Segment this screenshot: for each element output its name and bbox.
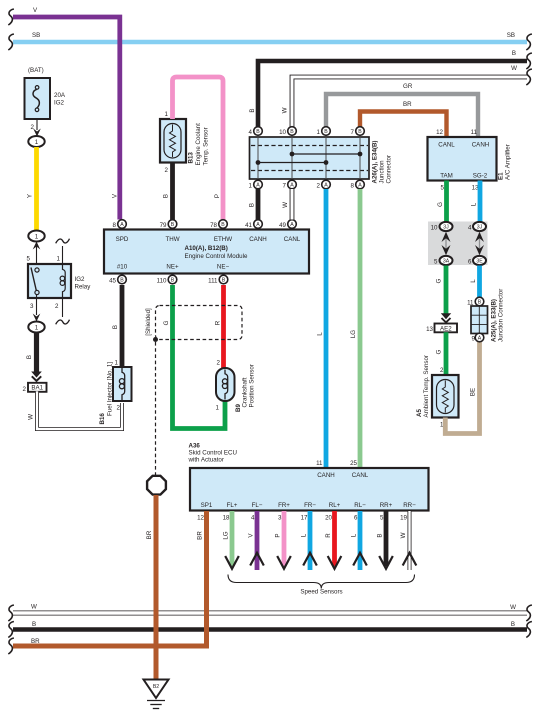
svg-text:SPD: SPD: [116, 236, 129, 243]
wire L (blue) junction to ABS CANH: [317, 189, 327, 468]
svg-text:Temp. Sensor: Temp. Sensor: [203, 127, 210, 165]
wire R (red) NE- to crankshaft sensor: [215, 285, 224, 368]
svg-text:2: 2: [217, 360, 221, 367]
connector pair arrows right column: [475, 232, 484, 255]
sensor A5 ambient temp sensor: [416, 355, 459, 428]
svg-text:1: 1: [165, 111, 169, 118]
svg-text:RR−: RR−: [403, 502, 416, 509]
junction connector A26(A) E34(B) body: [250, 137, 393, 184]
svg-text:49: 49: [279, 222, 286, 229]
svg-text:A/C Amplifier: A/C Amplifier: [505, 144, 512, 180]
wire W junction to ECM CANL (white hollow): [282, 189, 292, 220]
svg-text:G: G: [436, 278, 443, 283]
svg-text:A5: A5: [416, 409, 423, 417]
wire L (blue) SG-2 to 3J: [471, 181, 481, 223]
svg-text:CANH: CANH: [472, 142, 490, 149]
svg-text:Crankshaft: Crankshaft: [242, 377, 249, 407]
svg-text:4: 4: [468, 225, 472, 232]
svg-text:3A: 3A: [443, 259, 450, 265]
svg-text:A: A: [256, 183, 260, 189]
svg-text:2: 2: [23, 386, 27, 393]
svg-text:RR+: RR+: [380, 502, 393, 509]
wire BR shield drain to ground: [146, 495, 156, 680]
wire B (black) B13 pin2 to THW: [163, 163, 173, 220]
ground B2: [144, 680, 169, 709]
svg-text:B: B: [222, 278, 226, 284]
ABS ECU A36 skid control ECU: [188, 443, 429, 511]
svg-text:1: 1: [216, 405, 220, 412]
svg-text:AE2: AE2: [440, 326, 452, 333]
svg-text:Fuel Injector [No. 1]: Fuel Injector [No. 1]: [107, 362, 114, 416]
wire B junction to ECM CANH: [249, 189, 259, 220]
junction connector A25(A) E33(B) body: [471, 289, 505, 342]
break symbols bottom edge: [8, 605, 14, 621]
svg-text:Y: Y: [27, 194, 34, 198]
wire B (black) to BA1: [26, 333, 37, 374]
svg-text:110: 110: [157, 278, 167, 285]
svg-text:10: 10: [431, 225, 438, 232]
ECM pin 45(B) #10: [109, 275, 126, 284]
svg-text:Engine Coolant: Engine Coolant: [195, 123, 202, 166]
connector pair arrows left column: [442, 232, 451, 255]
speed sensors brace: [228, 575, 415, 596]
svg-text:ETHW: ETHW: [214, 236, 232, 243]
svg-text:A25(A), E33(B): A25(A), E33(B): [491, 299, 498, 342]
svg-text:1: 1: [35, 139, 39, 146]
svg-text:CANL: CANL: [438, 142, 455, 149]
svg-text:FR−: FR−: [304, 502, 316, 509]
svg-text:11: 11: [471, 129, 478, 136]
svg-text:12: 12: [197, 515, 204, 522]
svg-text:A: A: [478, 336, 482, 342]
svg-text:Junction Connector: Junction Connector: [498, 289, 505, 342]
wire into relay pin 5: [36, 246, 38, 266]
wire BR SP1 to ground bus: [197, 511, 207, 648]
svg-text:20A: 20A: [54, 92, 66, 99]
gray connector block: [428, 222, 488, 266]
svg-text:4: 4: [249, 129, 253, 136]
svg-text:3: 3: [30, 303, 34, 310]
svg-text:B: B: [358, 129, 362, 135]
svg-text:12: 12: [436, 129, 443, 136]
connector 3A (5): [434, 256, 452, 266]
ECM A10(A) B12(B) Engine Control Module: [104, 230, 309, 274]
svg-text:W: W: [400, 532, 407, 538]
svg-text:B: B: [112, 325, 119, 329]
wire W CAN trunk top right (white hollow): [282, 65, 528, 127]
svg-text:A: A: [358, 183, 362, 189]
svg-text:11: 11: [316, 460, 323, 467]
wire GR to A/C amplifier CANH: [326, 83, 478, 137]
svg-text:Junction: Junction: [379, 160, 386, 184]
svg-text:111: 111: [208, 278, 218, 285]
wire BR SP1 vertical over buses: [204, 600, 209, 648]
ECM pin 41(A) CANH: [245, 220, 262, 229]
ECM pin 110(B) NE+: [157, 275, 177, 284]
svg-text:GR: GR: [403, 83, 413, 90]
svg-text:6: 6: [354, 515, 358, 522]
svg-text:45: 45: [109, 278, 116, 285]
svg-text:Ambient Temp. Sensor: Ambient Temp. Sensor: [423, 355, 430, 417]
shield drain dashed wire: [155, 342, 157, 476]
wire LG (light green) junction to ABS CANL: [350, 189, 360, 468]
svg-text:R: R: [325, 533, 332, 538]
svg-text:B: B: [221, 222, 225, 228]
wire G (green) AE2 to ambient temp sensor: [436, 332, 447, 375]
svg-text:2: 2: [55, 303, 59, 310]
ECM pin 78(B) ETHW: [210, 220, 227, 229]
svg-text:B: B: [324, 129, 328, 135]
wire W RR- speed sensor (white hollow): [400, 511, 416, 570]
wire B RR+ speed sensor: [377, 511, 393, 569]
svg-text:RL−: RL−: [354, 502, 366, 509]
svg-text:13: 13: [426, 326, 433, 333]
wire G (green) NE+ to crankshaft sensor: [163, 285, 225, 429]
wire B CAN trunk top right: [249, 50, 527, 127]
svg-text:A: A: [290, 222, 294, 228]
shield drain octagon connector: [147, 476, 166, 495]
svg-text:G: G: [163, 320, 170, 325]
svg-text:LG: LG: [350, 330, 357, 338]
wire P FR+ speed sensor: [275, 511, 291, 569]
svg-text:B: B: [249, 203, 256, 207]
svg-text:1: 1: [57, 256, 61, 263]
svg-text:5: 5: [380, 515, 384, 522]
double chevron connector above AE2: [441, 313, 451, 322]
svg-text:CANH: CANH: [317, 472, 335, 479]
svg-text:#10: #10: [117, 264, 128, 271]
svg-text:B: B: [171, 278, 175, 284]
svg-text:B: B: [512, 50, 516, 57]
connector 3J (10): [431, 222, 453, 232]
svg-text:7: 7: [351, 129, 355, 136]
svg-text:BR: BR: [146, 530, 153, 539]
wire R RL+ speed sensor: [325, 511, 341, 569]
svg-text:7: 7: [283, 183, 287, 190]
svg-text:1: 1: [35, 234, 39, 241]
svg-text:6: 6: [468, 259, 472, 266]
wire BE (tan) ambient sensor to A25 junction: [445, 341, 479, 434]
junction connector A26(A) E34(B) pins top: [249, 127, 263, 136]
svg-text:W: W: [31, 604, 37, 611]
svg-text:2: 2: [440, 367, 444, 374]
connector oval 1 (wire to relay): [28, 231, 44, 242]
svg-text:10: 10: [279, 129, 286, 136]
svg-text:B: B: [26, 355, 33, 359]
svg-text:G: G: [437, 202, 444, 207]
svg-text:L: L: [471, 202, 478, 206]
wire LG FL+ speed sensor: [223, 511, 239, 569]
svg-text:W: W: [510, 604, 516, 611]
arrow into oval from relay side: [33, 242, 41, 250]
svg-text:NE−: NE−: [217, 264, 230, 271]
svg-text:E1: E1: [498, 172, 505, 180]
svg-text:(BAT): (BAT): [28, 67, 44, 74]
ECM pin 79(B) THW: [160, 220, 177, 229]
wire Y (yellow): [27, 147, 37, 231]
svg-text:B: B: [120, 278, 124, 284]
wire G (green) TAM to 3J: [437, 181, 447, 223]
sensor B9 crankshaft position sensor: [216, 360, 256, 413]
svg-text:Skid Control ECU: Skid Control ECU: [189, 450, 238, 457]
A/C amplifier E1: [428, 129, 512, 192]
shield dashed box: [145, 306, 242, 343]
wire P (pink) B13 to ETHW: [173, 77, 224, 220]
svg-text:B: B: [249, 108, 256, 112]
svg-text:A: A: [290, 183, 294, 189]
svg-text:A: A: [256, 222, 260, 228]
svg-text:2: 2: [165, 167, 169, 174]
ECM pin 49(A) CANL: [279, 220, 296, 229]
svg-text:17: 17: [301, 515, 308, 522]
ground point BA1: [23, 383, 47, 393]
wire BR to A/C amplifier CANL: [360, 101, 447, 137]
svg-text:B: B: [290, 129, 294, 135]
A25 junction pin 11(B): [467, 297, 484, 306]
svg-text:BR: BR: [197, 531, 204, 540]
svg-text:A: A: [324, 183, 328, 189]
svg-text:CANL: CANL: [284, 236, 301, 243]
wire V FL- speed sensor: [248, 511, 264, 570]
svg-text:B16: B16: [99, 413, 106, 425]
fuse 20A IG2: [25, 67, 66, 119]
svg-text:8: 8: [351, 183, 355, 190]
sensor B13 engine coolant temp sensor: [160, 111, 210, 174]
fuse pin 2 lead and arrow: [31, 119, 41, 137]
svg-text:SP1: SP1: [201, 502, 213, 509]
svg-text:W: W: [28, 414, 35, 420]
svg-text:BR: BR: [31, 638, 40, 645]
relay coil branch breaks: [56, 239, 70, 325]
break symbols top edge: [8, 9, 14, 25]
svg-text:8: 8: [113, 222, 117, 229]
svg-text:19: 19: [400, 515, 407, 522]
double chevron connector above BA1: [31, 372, 42, 381]
svg-text:THW: THW: [165, 236, 179, 243]
svg-text:BR: BR: [403, 101, 412, 108]
svg-text:B: B: [511, 621, 515, 628]
svg-text:W: W: [282, 107, 289, 113]
connector oval 1 (fuse to wire): [28, 136, 44, 147]
wire L (blue) 3E to A25 junction: [470, 266, 480, 298]
wire V ignition feed (purple): [13, 7, 120, 220]
wire from relay pin 3 with arrow: [33, 295, 41, 322]
svg-text:18: 18: [223, 515, 230, 522]
wire W from BA1 to fuel injector (white hollow): [28, 391, 123, 429]
svg-text:3J: 3J: [443, 225, 449, 231]
connector 3J (4): [468, 222, 486, 232]
svg-text:IG2: IG2: [54, 100, 65, 107]
svg-text:Position Sensor: Position Sensor: [249, 364, 256, 407]
svg-text:1: 1: [115, 360, 119, 367]
A25 junction pin 9(A): [472, 333, 484, 342]
svg-text:CANH: CANH: [249, 236, 267, 243]
wire L FR- speed sensor: [301, 511, 317, 570]
svg-text:Engine Control Module: Engine Control Module: [185, 253, 249, 260]
svg-text:[Shielded]: [Shielded]: [145, 308, 152, 336]
svg-text:5: 5: [441, 185, 445, 192]
svg-text:P: P: [275, 533, 282, 537]
relay IG2: [27, 256, 92, 311]
wire L RL- speed sensor: [351, 511, 367, 570]
svg-text:A: A: [120, 222, 124, 228]
svg-text:4: 4: [251, 515, 255, 522]
svg-text:2: 2: [117, 405, 121, 412]
svg-text:Speed Sensors: Speed Sensors: [300, 589, 342, 596]
svg-text:Connector: Connector: [386, 155, 393, 184]
svg-text:SB: SB: [507, 32, 515, 39]
svg-text:B: B: [478, 300, 482, 306]
wire B bottom bus: [13, 621, 527, 630]
svg-text:TAM: TAM: [440, 173, 453, 180]
svg-text:B2: B2: [153, 684, 159, 690]
svg-text:FR+: FR+: [278, 502, 290, 509]
wire BR bottom bus: [13, 638, 209, 646]
svg-text:25: 25: [350, 460, 357, 467]
svg-text:BA1: BA1: [31, 385, 43, 392]
svg-text:B: B: [163, 194, 170, 198]
svg-text:L: L: [317, 332, 324, 336]
wire W bottom bus (white hollow): [13, 604, 527, 614]
svg-text:1: 1: [317, 129, 321, 136]
svg-text:78: 78: [210, 222, 217, 229]
svg-text:79: 79: [160, 222, 167, 229]
svg-text:with Actuator: with Actuator: [188, 457, 224, 464]
svg-text:3J: 3J: [477, 225, 483, 231]
connector oval 1 (relay to B wire): [28, 322, 44, 333]
svg-text:FL+: FL+: [227, 502, 238, 509]
injector B16 fuel injector No.1: [99, 360, 132, 425]
svg-text:A10(A), B12(B): A10(A), B12(B): [185, 245, 228, 252]
svg-text:Relay: Relay: [75, 284, 92, 291]
svg-text:20: 20: [325, 515, 332, 522]
svg-text:CANL: CANL: [352, 472, 369, 479]
svg-text:1: 1: [249, 183, 253, 190]
svg-text:5: 5: [27, 256, 31, 263]
connector AE2: [426, 324, 457, 334]
junction connector A26(A) E34(B) pins bottom: [249, 180, 263, 189]
svg-text:41: 41: [245, 222, 252, 229]
svg-text:W: W: [282, 202, 289, 208]
svg-text:FL−: FL−: [252, 502, 263, 509]
svg-text:G: G: [436, 349, 443, 354]
ABS pin numbers bottom: [197, 515, 407, 522]
svg-text:A36: A36: [189, 443, 201, 450]
wire G (green) 3A to AE2: [436, 266, 447, 314]
svg-text:1: 1: [35, 325, 39, 332]
svg-text:L: L: [351, 533, 358, 537]
svg-text:RL+: RL+: [329, 502, 341, 509]
ECM pin 8(A) SPD: [113, 220, 127, 229]
svg-text:B: B: [32, 621, 36, 628]
svg-text:NE+: NE+: [166, 264, 179, 271]
connector 3E (6): [468, 256, 486, 266]
svg-text:B13: B13: [188, 152, 195, 164]
wire B (black) #10 to fuel injector: [112, 285, 122, 367]
svg-text:BE: BE: [470, 388, 477, 396]
svg-text:5: 5: [434, 259, 438, 266]
svg-text:3E: 3E: [476, 259, 483, 265]
svg-text:B: B: [171, 222, 175, 228]
svg-text:L: L: [301, 533, 308, 537]
svg-text:SB: SB: [32, 32, 40, 39]
svg-text:L: L: [470, 279, 477, 283]
svg-text:B: B: [377, 533, 384, 537]
svg-text:B: B: [256, 129, 260, 135]
svg-text:IG2: IG2: [75, 276, 86, 283]
svg-text:2: 2: [317, 183, 321, 190]
svg-text:A26(A), E34(B): A26(A), E34(B): [372, 141, 379, 184]
svg-text:W: W: [511, 65, 517, 72]
ECM pin 111(B) NE-: [208, 275, 228, 284]
svg-text:LG: LG: [223, 531, 230, 539]
svg-text:R: R: [215, 320, 222, 325]
wire BR shield drain vertical over buses: [154, 600, 159, 680]
svg-text:3: 3: [278, 515, 282, 522]
svg-text:P: P: [214, 194, 221, 198]
wire SB horizontal bus: [13, 32, 527, 42]
svg-text:SG-2: SG-2: [473, 173, 488, 180]
